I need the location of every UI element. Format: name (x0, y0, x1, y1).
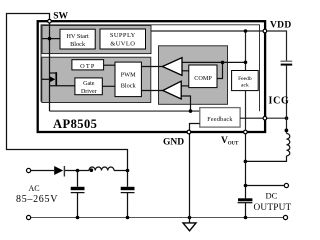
capacitor C1 plate thick (71, 187, 85, 190)
svg-text:85–265V: 85–265V (16, 194, 58, 205)
node ICG/coil junction (285, 116, 289, 120)
svg-text:VDD: VDD (270, 21, 291, 31)
wire bottom ground rail (31, 217, 284, 219)
terminal DC- (283, 215, 287, 219)
svg-text:Block: Block (121, 82, 137, 89)
wire comparator output net (182, 61, 246, 63)
wire feedback to ICG pin (240, 117, 264, 119)
wire feedback column lower (245, 91, 247, 132)
svg-text:DC: DC (266, 191, 278, 201)
svg-text:Feedb: Feedb (238, 76, 252, 82)
inductor L2 secondary coil (287, 134, 290, 156)
node Vout/L2 junction (244, 160, 248, 164)
wire to HV start block (42, 38, 60, 40)
block COMP (189, 65, 217, 88)
wire comparator 1 to COMP (182, 70, 189, 72)
capacitor C4 output plate thin (238, 202, 253, 204)
capacitor C3 VDD plate thin (281, 60, 293, 62)
transistor Q1 stub top (50, 72, 57, 74)
wire GND pin down (189, 132, 191, 223)
node C1 top junction (76, 169, 80, 173)
capacitor C2 plate thin (121, 192, 135, 194)
block Gate Driver (75, 78, 102, 95)
wire VOUT pin down (245, 132, 247, 198)
svg-text:Driver: Driver (81, 89, 97, 95)
svg-text:VOUT: VOUT (221, 136, 239, 146)
wire PWM to comparator 1 (141, 66, 163, 68)
svg-text:Gate: Gate (83, 81, 95, 87)
comparator A2 (163, 81, 181, 99)
wire comparator 2 upper input to COMP (181, 85, 189, 87)
wire comp box feed (217, 62, 223, 78)
capacitor C1 plate thin (71, 192, 85, 194)
node L1 polarity dot (90, 168, 94, 172)
wire SW pin to external node (7, 14, 128, 171)
wire diode to inductor (65, 170, 89, 172)
node feedback column junction (244, 61, 248, 65)
wire L2 bottom to Vout (246, 156, 287, 162)
gray block region 2 (control) (42, 57, 151, 102)
inner die boundary (41, 25, 260, 111)
svg-text:&UVLO: &UVLO (110, 40, 135, 47)
block SUPPLY UVLO (100, 29, 146, 49)
block OTP (72, 60, 104, 70)
pin VOUT (244, 130, 248, 134)
wire PWM to comparator 2 (141, 90, 163, 92)
wire comparator 2 output down (181, 96, 190, 111)
node SW/HV junction (48, 37, 52, 41)
terminal DC+ (284, 183, 288, 187)
ground symbol (183, 223, 196, 231)
capacitor C4 output plate thick (238, 198, 252, 201)
wire feedback column upper (245, 31, 247, 71)
pin SW (48, 19, 52, 23)
diode D1 cathode bar (63, 166, 65, 177)
chip outline U1 AP8505 (38, 21, 265, 132)
node bottom rail junctions (76, 216, 80, 220)
transistor Q1 channel bar (55, 72, 57, 86)
wire L1 to node (114, 170, 129, 172)
block Feedback right (232, 71, 259, 91)
wire VDD rail (151, 31, 287, 61)
capacitor C1 wire top (77, 171, 79, 218)
gray block region 3 (comparator section) (159, 46, 228, 105)
svg-text:SUPPLY: SUPPLY (110, 32, 136, 39)
pin VDD (263, 29, 267, 33)
diode D1 (54, 166, 63, 175)
svg-text:OUTPUT: OUTPUT (254, 203, 292, 213)
svg-text:Block: Block (70, 41, 86, 48)
terminal AC top (27, 168, 31, 172)
svg-text:COMP: COMP (194, 75, 212, 82)
svg-text:ICG: ICG (269, 96, 290, 107)
svg-text:OTP: OTP (80, 63, 96, 70)
capacitor C3 VDD plate thick (281, 64, 293, 66)
node rail junction (189, 109, 193, 113)
wire gate driver to PWM (102, 85, 115, 87)
capacitor C2 plate thick (121, 187, 135, 190)
transistor Q1 gate arrow (50, 77, 55, 83)
transistor Q1 gate line (42, 78, 53, 80)
gray block region 1 (HV/supply) (42, 26, 151, 54)
block Feedback bottom (200, 108, 240, 128)
svg-text:HV Start: HV Start (66, 33, 89, 40)
svg-text:GND: GND (163, 138, 184, 148)
wire SW vertical inside chip (49, 21, 51, 111)
transistor Q1 source/gate-driver wire (50, 85, 75, 87)
wire C4 to ground rail (245, 203, 247, 218)
block HV Start (60, 29, 95, 49)
inner die bottom rail (50, 110, 200, 112)
capacitor C2 wire (127, 171, 129, 218)
svg-text:ack: ack (241, 83, 249, 89)
terminal AC bottom (27, 215, 31, 219)
svg-text:PWM: PWM (121, 72, 136, 79)
wire GND pin to feedback block (190, 124, 200, 133)
pin ICG (263, 116, 267, 120)
inductor L1 (89, 167, 114, 171)
svg-text:SW: SW (53, 12, 68, 22)
wire to DC+ terminal (246, 185, 285, 187)
node C2/SW junction (126, 169, 130, 173)
node VDD junction (244, 29, 248, 33)
pin GND (187, 130, 191, 134)
wire OTP to PWM (104, 64, 115, 66)
wire ICG pin to coil (264, 117, 286, 119)
node comp junction (221, 61, 225, 65)
node DC+ junction (244, 184, 248, 188)
comparator A1 (162, 58, 182, 76)
svg-text:Feedback: Feedback (207, 117, 232, 123)
wire C3 to ICG node (286, 66, 288, 134)
node L2 polarity dot (285, 129, 289, 133)
block PWM (115, 62, 141, 97)
svg-text:AP8505: AP8505 (53, 117, 97, 131)
svg-text:AC: AC (29, 184, 40, 193)
wire AC top rail (31, 170, 55, 172)
